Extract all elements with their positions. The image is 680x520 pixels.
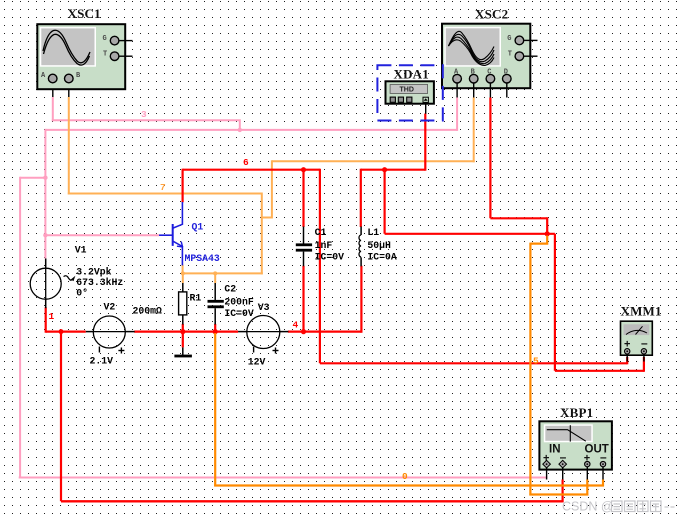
svg-text:R1: R1 bbox=[190, 293, 202, 304]
oscilloscope XSC1 bbox=[37, 24, 132, 89]
wire net5 orange long riser bbox=[529, 243, 531, 496]
svg-text:12V: 12V bbox=[248, 356, 266, 367]
wire net8 red XSC2.C horizontal bbox=[490, 217, 547, 219]
wire net8 red branch vertical bbox=[384, 170, 386, 234]
wire net7 orange emitter connection bbox=[182, 265, 184, 275]
svg-text:CSDN @: CSDN @ bbox=[562, 500, 614, 514]
junction net4 bbox=[301, 329, 306, 334]
svg-text:5: 5 bbox=[533, 356, 539, 367]
svg-text:3.2Vpk: 3.2Vpk bbox=[76, 266, 111, 277]
wire net8 red bottom horizontal XMM1 minus bbox=[555, 370, 644, 372]
junction net1 bbox=[59, 329, 64, 334]
capacitor C1 bbox=[296, 227, 312, 267]
svg-text:T: T bbox=[103, 51, 107, 59]
svg-text:Q1: Q1 bbox=[192, 221, 204, 232]
junction net7 at C2 bbox=[213, 271, 217, 275]
wire XMM1 minus stub bbox=[643, 354, 645, 362]
wire net1 red C2 bottom stub bbox=[214, 324, 216, 334]
wire net4 red L1 bottom bbox=[360, 266, 362, 333]
junction net3 bbox=[238, 128, 242, 132]
wire net7 orange jog horizontal bbox=[261, 217, 272, 219]
wire net7 orange XSC1.B stub bbox=[68, 83, 70, 98]
svg-text:4: 4 bbox=[293, 320, 299, 331]
wire net6 red XMM1 plus riser bbox=[626, 357, 628, 364]
wire net6 red collector horizontal bbox=[183, 169, 320, 171]
wire XBP1 INminus stub bbox=[562, 467, 564, 480]
wire net8 red branch horizontal bbox=[385, 233, 555, 235]
wire net1 red middle horizontal bbox=[134, 331, 238, 333]
junction net7 at R1 bbox=[181, 271, 185, 275]
svg-text:G: G bbox=[507, 35, 511, 43]
wire net3 pink far-left vertical bbox=[19, 177, 21, 478]
multimeter XMM1 bbox=[621, 321, 653, 355]
wire net8 red riser to XMM1 minus bbox=[554, 234, 556, 371]
wire net3 pink long horizontal bbox=[45, 129, 457, 131]
wire net5 orange top jog bbox=[530, 236, 547, 244]
svg-text:MPSA43: MPSA43 bbox=[185, 253, 220, 264]
inductor L1 bbox=[359, 227, 361, 267]
ground bbox=[174, 347, 192, 357]
wire net3 pink stub left bbox=[20, 177, 45, 179]
svg-text:C: C bbox=[487, 69, 491, 77]
svg-text:1: 1 bbox=[49, 311, 55, 322]
svg-text:V2: V2 bbox=[104, 302, 116, 313]
distortion analyzer XDA1 bbox=[386, 81, 434, 103]
wire net5 orange XBP1 OUTplus riser bbox=[586, 480, 588, 496]
resistor R1 bbox=[179, 283, 187, 325]
source V3 bbox=[238, 316, 288, 354]
selection box around XDA1 bbox=[377, 65, 442, 120]
wire net8 red L1 top stub bbox=[360, 169, 362, 227]
svg-text:XBP1: XBP1 bbox=[560, 405, 593, 420]
svg-text:6: 6 bbox=[243, 157, 249, 168]
oscilloscope XSC2 bbox=[442, 24, 538, 89]
wire net8 red XSC2.C vertical bbox=[489, 98, 491, 219]
wire net3 pink bottom horizontal to XBP1 IN+ bbox=[19, 477, 548, 479]
svg-text:200nF: 200nF bbox=[224, 297, 254, 308]
wire net8 red XSC2.C down bbox=[546, 217, 548, 234]
junction net8 bbox=[382, 167, 387, 172]
svg-text:C1: C1 bbox=[315, 227, 327, 238]
svg-text:XMM1: XMM1 bbox=[621, 304, 662, 319]
svg-text:7: 7 bbox=[160, 182, 166, 193]
wire net6 red collector vertical bbox=[182, 169, 184, 203]
wire net6 red C1 top stub bbox=[302, 170, 304, 227]
junction net3 at y178 bbox=[43, 176, 47, 180]
wire net3 pink XSC2.A vertical bbox=[456, 98, 458, 131]
wire net3 pink XSC1.A stub bbox=[52, 83, 54, 98]
bode plotter XBP1 bbox=[539, 421, 612, 469]
svg-text:C2: C2 bbox=[224, 284, 236, 295]
junction net3 at y235.8 bbox=[43, 233, 47, 237]
svg-text:0: 0 bbox=[402, 471, 408, 482]
wire net7 orange C2 stub bbox=[214, 273, 216, 283]
wire net8 red XMM1 minus riser bbox=[643, 357, 645, 372]
wire net7 orange XSC1.B vertical bbox=[68, 97, 70, 195]
wire net4 red V3 right horizontal bbox=[288, 331, 362, 333]
wire XSC2.B stub bbox=[473, 83, 475, 98]
wire XBP1 OUTplus stub bbox=[586, 467, 588, 480]
svg-text:200mΩ: 200mΩ bbox=[133, 306, 163, 317]
wire net0 orange XBP1 OUTminus riser bbox=[602, 480, 604, 487]
wire net7 orange XSC2.B horizontal bbox=[272, 160, 475, 162]
svg-text:0°: 0° bbox=[76, 287, 88, 298]
junction net8 big bbox=[545, 231, 550, 236]
wire net6 red horizontal to XMM1 plus bbox=[320, 362, 627, 364]
svg-text:1nF: 1nF bbox=[315, 240, 333, 251]
wire net1 red bottom long horizontal bbox=[61, 500, 563, 502]
wire net1 red horizontal left bbox=[46, 331, 86, 333]
svg-text:3: 3 bbox=[141, 109, 147, 120]
capacitor C2 bbox=[208, 283, 224, 325]
svg-text:D: D bbox=[504, 69, 508, 77]
svg-text:IC=0V: IC=0V bbox=[315, 251, 345, 262]
wire net7 orange horizontal bbox=[68, 193, 262, 195]
wire net6 red long vertical to XMM1 bbox=[319, 169, 321, 364]
wire net7 orange XSC2.B vertical bbox=[473, 98, 475, 163]
source V1 bbox=[30, 259, 74, 309]
svg-text:IC=0V: IC=0V bbox=[224, 308, 254, 319]
svg-text:G: G bbox=[103, 35, 107, 43]
svg-text:THD: THD bbox=[400, 87, 414, 94]
wire XMM1 plus stub bbox=[626, 354, 628, 362]
wire net8 red L1 XDA1 horizontal bbox=[361, 169, 426, 171]
wire net1 red R1 bottom stub bbox=[182, 324, 184, 348]
wire net7 orange jog vertical bbox=[271, 160, 273, 218]
source V2 bbox=[86, 316, 135, 354]
svg-text:2.1V: 2.1V bbox=[90, 356, 114, 367]
wire net5 orange bottom horizontal bbox=[529, 493, 588, 495]
wire net3 pink horizontal upper bbox=[52, 120, 240, 130]
wire net7 orange bottom horizontal bbox=[183, 272, 263, 274]
wire net4 red C1 bottom stub bbox=[302, 266, 304, 332]
wire net3 pink XSC1.A vertical bbox=[52, 97, 54, 121]
svg-text:V1: V1 bbox=[75, 245, 87, 256]
wire net3 pink V1 vertical bbox=[44, 129, 46, 259]
wire XBP1 INplus stub bbox=[546, 467, 548, 480]
svg-text:XDA1: XDA1 bbox=[394, 67, 429, 82]
wire net7 orange R1 stub bbox=[182, 273, 184, 283]
svg-text:XSC1: XSC1 bbox=[68, 6, 101, 21]
wire net1 red long down bbox=[60, 332, 62, 502]
wire net0 orange long horizontal bbox=[214, 484, 604, 486]
watermark bbox=[562, 500, 675, 514]
wire net1 red V1 down bbox=[45, 307, 47, 333]
svg-text:XSC2: XSC2 bbox=[475, 7, 508, 22]
svg-text:V3: V3 bbox=[258, 302, 270, 313]
wire XSC2.C stub bbox=[489, 83, 491, 98]
wire XBP1 OUTminus stub bbox=[602, 467, 604, 480]
svg-text:T: T bbox=[508, 51, 512, 59]
wire XDA1 stub bbox=[425, 102, 427, 113]
junction net1 C2 bbox=[213, 329, 218, 334]
svg-text:IC=0A: IC=0A bbox=[367, 251, 397, 262]
wire XSC2.D stub bbox=[506, 83, 508, 98]
wire net8 red XDA1 vertical bbox=[424, 114, 426, 171]
svg-text:L1: L1 bbox=[367, 227, 379, 238]
wire XSC2.A stub bbox=[456, 83, 458, 98]
wire net7 orange vertical bbox=[261, 193, 263, 275]
transistor Q1 bbox=[159, 202, 183, 265]
wire net3 pink to Q1 base bbox=[45, 234, 159, 236]
junction net1 R1 bbox=[180, 329, 185, 334]
wire net1 red XBP1 INminus riser bbox=[561, 480, 563, 503]
wire net0 orange C2 riser bbox=[214, 333, 216, 487]
svg-text:–: – bbox=[641, 336, 648, 350]
svg-text:50µH: 50µH bbox=[367, 240, 391, 251]
junction net6 C1 bbox=[301, 167, 306, 172]
